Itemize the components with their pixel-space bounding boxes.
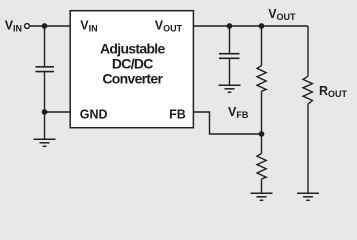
wire R1 to VFB node: [261, 91, 263, 134]
wire GND pin: [45, 111, 71, 113]
wire VIN terminal to converter: [30, 25, 70, 27]
wire input node down to input capacitor: [44, 26, 46, 66]
wire VOUT pin to ROUT branch: [194, 25, 309, 27]
junction dot (VFB node): [259, 131, 265, 137]
svg-text:Adjustable: Adjustable: [100, 40, 165, 56]
ground (feedback divider): [251, 193, 273, 200]
wire R2 to ground: [261, 179, 263, 193]
svg-text:Converter: Converter: [102, 71, 163, 87]
svg-text:FB: FB: [169, 107, 186, 121]
converter block U1: [70, 11, 193, 128]
ground (ROUT): [297, 193, 319, 200]
junction dot (input ground node): [42, 109, 48, 115]
wire VOUT node down to feedback resistor: [261, 26, 263, 66]
wire VOUT corner down to ROUT: [307, 26, 309, 76]
wire VOUT node down to output capacitor: [229, 26, 231, 53]
wire FB pin: [194, 112, 262, 134]
capacitor COUT top plate: [219, 53, 240, 55]
resistor R1 (upper feedback divider): [257, 66, 266, 92]
capacitor COUT bottom plate: [219, 57, 240, 59]
wire COUT to ground: [229, 59, 231, 85]
capacitor CIN bottom plate: [36, 71, 55, 73]
junction dot (COUT node): [227, 23, 233, 29]
wire VFB node down to resistor R2: [261, 134, 263, 153]
wire ROUT to ground: [307, 104, 309, 192]
resistor ROUT (load): [303, 76, 312, 104]
svg-text:GND: GND: [80, 107, 108, 121]
ground (output capacitor): [219, 85, 241, 92]
wire CIN to ground: [44, 72, 46, 138]
capacitor CIN top plate: [36, 66, 55, 68]
ground (input capacitor): [34, 139, 56, 146]
junction dot (input node top): [42, 23, 48, 29]
resistor R2 (lower feedback divider): [257, 153, 266, 179]
terminal VIN (open circle): [25, 24, 30, 29]
junction dot (VOUT node): [259, 23, 265, 29]
svg-text:DC/DC: DC/DC: [112, 55, 153, 71]
